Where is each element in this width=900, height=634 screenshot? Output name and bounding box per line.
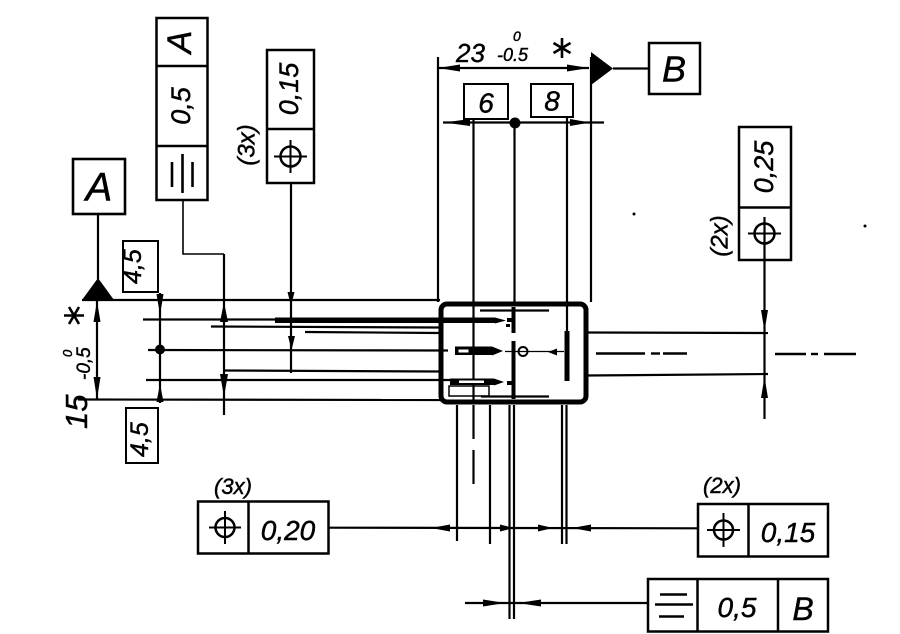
speck 1 [633, 213, 636, 216]
middle pin thick bar with slot and tip [455, 347, 564, 357]
shaft bottom edge [586, 374, 768, 376]
feature control frame U1: symmetry 0,5 A (vertical, top-left) [157, 18, 208, 200]
center line left with junction dot [148, 349, 448, 352]
inner wall x=513 (thick) [512, 307, 516, 399]
svg-text:4,5: 4,5 [126, 422, 154, 457]
inner wall x=567 (thick) [565, 331, 570, 381]
boxed dimension 4,5 (upper) [119, 241, 158, 292]
svg-text:(2x): (2x) [706, 215, 733, 256]
center line right (dash-dot segments) [596, 352, 856, 355]
datum B leader [613, 67, 649, 69]
inner step line top [480, 309, 549, 311]
pin 1 thick bar with tip [275, 318, 506, 324]
pin 3 upper edge line [225, 371, 440, 372]
feature control frame U4: position 0,20 (3x) (bottom left) [198, 474, 329, 554]
feature control frame U6: symmetry 0,5 B (bottom) [648, 579, 828, 632]
svg-text:0,5: 0,5 [718, 592, 757, 623]
slot outline below pin 3 [449, 386, 489, 396]
boxed dimension 8 [531, 84, 573, 117]
extension line x=224 with arrows [220, 254, 228, 415]
svg-text:B: B [662, 49, 686, 90]
boxed dimension 6 [464, 84, 508, 119]
aperture edge line y=333 [305, 332, 440, 333]
extension line x=473.5 below body (dashed) [472, 405, 474, 490]
svg-text:0: 0 [513, 28, 521, 44]
inner step line bottom [481, 395, 549, 397]
datum B triangle [591, 52, 613, 85]
top edge extension line y=300 [82, 299, 440, 301]
boxed dimension 4,5 (lower) [126, 408, 158, 463]
svg-text:B: B [792, 591, 813, 627]
svg-text:0,15: 0,15 [274, 62, 304, 116]
extension line x=490 below body [489, 405, 491, 544]
part body outline (thick) [441, 304, 586, 402]
svg-text:0,15: 0,15 [761, 517, 816, 548]
svg-text:A: A [161, 31, 199, 56]
svg-text:0,25: 0,25 [749, 140, 779, 194]
datum label B box [649, 43, 700, 94]
extension line x=514.5 upper [513, 128, 515, 302]
pin 1 (top) thin extension [143, 318, 281, 320]
feature control frame U5: position 0,15 (2x) (bottom right) [698, 473, 828, 557]
svg-text:6: 6 [478, 87, 494, 118]
dimension 23 0/-0.5 [438, 28, 591, 302]
svg-text:(2x): (2x) [703, 473, 741, 498]
extension line x=160 with junction dot [155, 293, 165, 403]
datum A leader [97, 214, 99, 279]
svg-text:(3x): (3x) [214, 474, 252, 499]
dimension 15 0/-0.5 vertical [59, 301, 101, 429]
pin 3 thick bar with slot and tip [450, 379, 504, 386]
leader from frame U3 with arrows across shaft [761, 250, 768, 419]
datum label A box [73, 159, 125, 214]
leader line y=603 with arrow blobs [465, 600, 648, 607]
svg-text:23: 23 [455, 38, 485, 68]
center extension double line below body [508, 405, 510, 619]
datum A triangle [82, 278, 114, 300]
feature control frame U3: position 0,25 (2x) (vertical right) [706, 127, 791, 260]
speck 2 [864, 225, 867, 228]
svg-text:0,20: 0,20 [261, 515, 316, 546]
leader from frame U2 with arrows [288, 183, 296, 373]
dimension line y=122 with dot [443, 118, 604, 129]
extension line x=473.5 upper [472, 119, 474, 302]
svg-text:0: 0 [60, 349, 75, 357]
svg-text:A: A [84, 166, 113, 210]
feature control frame U2: position 0,15 (3x) (vertical) [233, 50, 314, 183]
leader from frame U1 [183, 200, 224, 254]
extension double line x=562/566 below body [561, 405, 563, 544]
shared leader line y=528 with arrow blobs [329, 525, 698, 532]
svg-text:-0,5: -0,5 [74, 347, 95, 380]
svg-text:-0.5: -0.5 [497, 45, 529, 65]
shaft top edge [586, 331, 768, 334]
pin 1 lower edge line [211, 327, 440, 328]
extension line x=567 upper [566, 117, 568, 331]
inner extension x=474 through body [472, 302, 474, 404]
svg-text:4,5: 4,5 [119, 249, 147, 284]
svg-text:(3x): (3x) [233, 124, 260, 165]
pin tip specks [506, 318, 513, 385]
pin 3 (bottom) thin extension [146, 379, 450, 381]
bottom edge extension line y=400 [78, 398, 444, 401]
svg-text:0,5: 0,5 [166, 86, 196, 125]
extension line x=457 below body [456, 405, 458, 541]
svg-text:8: 8 [544, 85, 560, 116]
